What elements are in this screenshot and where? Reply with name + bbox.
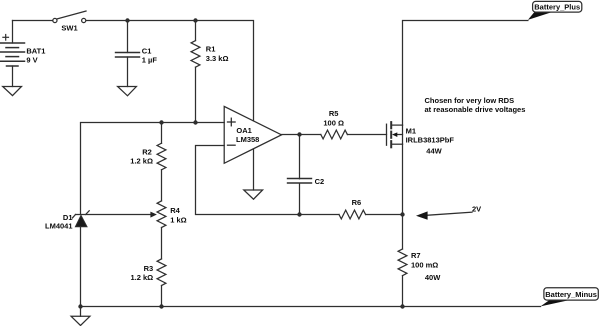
node junction R3 bottom [159,304,163,308]
svg-text:OA1: OA1 [236,126,251,135]
resistor R6 [339,210,403,219]
net flag Battery_Minus [541,288,599,307]
wire battery to switch [13,20,53,22]
resistor R5 [321,130,387,139]
capacitor C1 [116,21,140,87]
node junction output/C2/R5 [297,132,301,136]
ground (bottom-left) [71,316,90,325]
wire minus input feedback [196,146,340,215]
svg-text:R2: R2 [142,148,152,157]
svg-text:M1: M1 [406,127,416,136]
switch SW1 [53,11,86,23]
svg-text:R5: R5 [329,109,339,118]
svg-text:40W: 40W [425,273,441,282]
svg-text:R1: R1 [206,45,216,54]
net flag Battery_Plus [528,1,582,20]
node junction 2V [400,212,404,216]
node junction D1/ground [78,304,82,308]
svg-text:R3: R3 [144,264,154,273]
ground (op-amp) [244,190,263,199]
svg-text:1 kΩ: 1 kΩ [170,215,186,224]
potentiometer R4 [157,201,166,259]
svg-text:Chosen for very low RDS: Chosen for very low RDS [425,96,515,105]
resistor R1 [191,21,200,123]
node junction R2 top [159,120,163,124]
svg-text:R7: R7 [411,251,421,260]
svg-text:100 mΩ: 100 mΩ [411,261,438,270]
node junction C2 bottom [297,212,301,216]
battery BAT1 [0,21,25,87]
node junction R1 bottom / plus input [193,120,197,124]
node junction C1 top [125,18,129,22]
ground (battery) [3,87,22,96]
wire node A (plus-input rail) [81,123,225,215]
op-amp OA1 [224,106,281,163]
capacitor C2 [288,135,312,215]
wire to bottom-left ground [80,307,82,317]
svg-text:R4: R4 [170,206,180,215]
diode D1 LM4041 [72,211,89,307]
svg-text:IRLB3813PbF: IRLB3813PbF [406,136,455,145]
svg-text:at reasonable drive voltages: at reasonable drive voltages [425,105,526,114]
svg-text:SW1: SW1 [61,24,77,33]
wire ground rail (bottom) [81,306,541,308]
svg-text:9 V: 9 V [26,55,37,64]
svg-text:2V: 2V [472,205,481,214]
svg-text:44W: 44W [426,147,442,156]
wire op-amp output [282,134,321,136]
node junction R7 bottom [400,304,404,308]
svg-text:Battery_Minus: Battery_Minus [545,290,597,299]
svg-text:Battery_Plus: Battery_Plus [534,3,580,12]
ground (C1) [118,87,137,96]
svg-text:LM358: LM358 [236,135,259,144]
svg-text:BAT1: BAT1 [26,47,45,56]
transistor M1 (n-MOSFET) [387,122,403,147]
wire switch to op-amp V+ corner [87,21,254,121]
node junction R1 top [193,18,197,22]
svg-text:3.3 kΩ: 3.3 kΩ [206,54,229,63]
svg-text:100 Ω: 100 Ω [323,119,344,128]
svg-text:LM4041: LM4041 [45,222,73,231]
wiper arrow R4 [76,212,157,218]
resistor R7 [398,249,407,307]
annotation arrow 2V [416,211,472,219]
svg-text:1.2 kΩ: 1.2 kΩ [130,156,153,165]
svg-text:C2: C2 [315,177,325,186]
wire op-amp V- to ground [253,149,255,190]
resistor R3 [157,259,166,307]
svg-text:R6: R6 [352,198,362,207]
svg-text:D1: D1 [63,213,73,222]
resistor R2 [157,123,166,201]
wire M1 source to R7 [402,144,404,249]
svg-text:C1: C1 [142,47,152,56]
svg-text:1 µF: 1 µF [142,55,158,64]
wire M1 drain to Battery_Plus [403,21,528,126]
svg-text:1.2 kΩ: 1.2 kΩ [131,273,154,282]
